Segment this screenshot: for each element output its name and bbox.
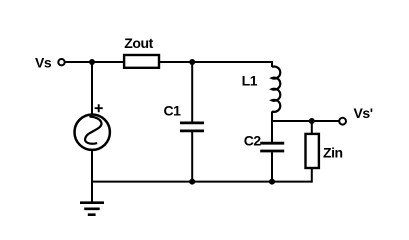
node junction dot C1 rail <box>189 179 195 185</box>
wire junction down to C1 top plate <box>191 62 193 123</box>
svg-text:C1: C1 <box>164 102 182 118</box>
svg-text:L1: L1 <box>242 72 258 88</box>
ground symbol <box>80 203 104 215</box>
wire inductor bottom to output node <box>271 111 273 122</box>
inductor L1 <box>272 67 280 112</box>
node junction dot above Zin <box>309 118 315 124</box>
svg-text:Vs: Vs <box>35 55 52 71</box>
plus sign of source polarity <box>95 104 103 112</box>
wire junction down to Zin top <box>311 121 313 135</box>
wire top corner into inductor <box>271 61 273 67</box>
node junction dot C2 rail <box>269 179 275 185</box>
svg-text:Vs': Vs' <box>354 105 373 121</box>
resistor Zout <box>124 55 159 68</box>
resistor Zin <box>306 134 319 168</box>
svg-text:C2: C2 <box>244 132 262 148</box>
svg-text:Zin: Zin <box>323 145 343 161</box>
wire C1 bottom plate to rail <box>191 131 193 182</box>
node junction dot at source branch <box>89 59 95 65</box>
node junction dot above C1 <box>189 59 195 65</box>
source V1 sine wave <box>85 117 101 144</box>
capacitor C2 <box>260 143 284 151</box>
wire bottom rail <box>92 181 312 183</box>
wire C2 bottom to rail <box>271 151 273 182</box>
wire output node down to C2 <box>271 121 273 143</box>
wire junction down to source top <box>91 62 93 115</box>
svg-text:Zout: Zout <box>124 35 153 51</box>
capacitor C1 <box>180 123 204 131</box>
wire Vs terminal to resistor Zout <box>65 61 124 63</box>
terminal Vs open circle <box>58 59 64 65</box>
wire resistor Zout to top-right corner <box>159 61 273 63</box>
wire output node to Vs' terminal <box>272 120 340 122</box>
wire source bottom to ground <box>91 150 93 203</box>
wire Zin bottom to rail <box>311 168 313 183</box>
terminal Vs' open circle <box>339 118 346 125</box>
source V1 circle <box>75 115 110 150</box>
